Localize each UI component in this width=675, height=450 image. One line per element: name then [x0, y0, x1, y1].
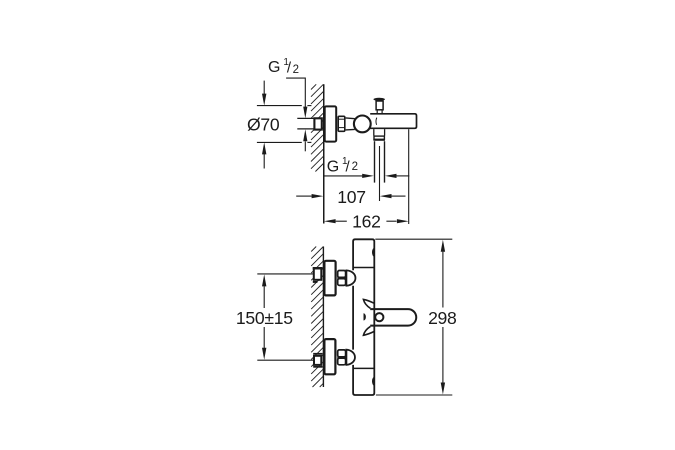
hose union nut [374, 136, 384, 139]
dimension 162 left arrow [324, 219, 336, 223]
supply pipe nipple [297, 119, 314, 128]
diverter stem [376, 110, 378, 113]
lower union dome [346, 350, 355, 365]
svg-text:G: G [268, 59, 280, 76]
body detail arc [375, 118, 378, 125]
dimension 107 right arrow [380, 194, 392, 198]
svg-text:2: 2 [293, 64, 299, 76]
check valve circle [354, 116, 371, 133]
port bump lower [372, 377, 375, 387]
dimension 298 extension top [375, 238, 452, 240]
mixer body plan view [353, 239, 374, 395]
upper in-wall square [314, 268, 322, 279]
escutcheon rosette side view [325, 106, 337, 141]
wall surface line top view [323, 84, 325, 223]
lower in-wall square [314, 356, 321, 365]
svg-text:107: 107 [337, 187, 365, 207]
leader G 1/2 top [286, 78, 305, 107]
upper union dome [346, 270, 355, 285]
svg-text:G: G [327, 159, 339, 176]
body section line lower [353, 367, 374, 369]
lower union extension line [257, 359, 313, 361]
svg-text:298: 298 [428, 308, 457, 328]
svg-text:Ø70: Ø70 [247, 115, 280, 135]
svg-text:2: 2 [352, 161, 358, 173]
upper union extension line [257, 273, 313, 275]
diverter knob cap [376, 101, 383, 110]
shower hose [374, 141, 376, 182]
dimension Ø70 arrow up [263, 154, 265, 169]
arrow G 1/2 up at pipe [304, 141, 306, 151]
shower outlet connector [373, 129, 375, 135]
mixer body side view [366, 114, 417, 129]
port bump upper [372, 248, 375, 258]
in-wall union nut [314, 118, 321, 129]
svg-text:162: 162 [352, 212, 380, 232]
upper union hex nut [338, 271, 346, 278]
dimension 107 left arrow [296, 195, 312, 197]
connector piece [346, 117, 355, 120]
temperature mark [364, 313, 366, 320]
dimension G 1/2 hose line left [324, 175, 363, 177]
lower escutcheon plan [324, 339, 335, 374]
extension line spout outlet [408, 129, 410, 224]
lever leaf lower [363, 326, 374, 335]
dimension 298 extension bottom [376, 394, 452, 396]
lever hole [375, 313, 383, 321]
union nut side view [338, 116, 345, 131]
lower union hex nut [338, 350, 346, 357]
svg-text:150±15: 150±15 [236, 308, 293, 328]
lever handle plan view [370, 309, 416, 326]
body section line upper [353, 267, 374, 269]
wall surface line bottom view [322, 247, 324, 388]
dimension Ø70 arrow down [263, 81, 265, 94]
wall hatch top view [311, 84, 323, 171]
dimension Ø70 extension bottom [257, 141, 302, 143]
wall hatch bottom view [311, 247, 323, 388]
extension line hose centre [379, 146, 381, 201]
dimension Ø70 extension top [257, 105, 302, 107]
dimension 150±15 line [263, 286, 265, 308]
diverter knob top disc [373, 98, 385, 101]
dimension 162 right arrow [386, 220, 396, 222]
upper escutcheon plan [324, 261, 335, 296]
dimension 298 line [442, 252, 444, 308]
lever leaf upper [363, 299, 374, 308]
dimension G 1/2 hose line right [397, 175, 410, 177]
